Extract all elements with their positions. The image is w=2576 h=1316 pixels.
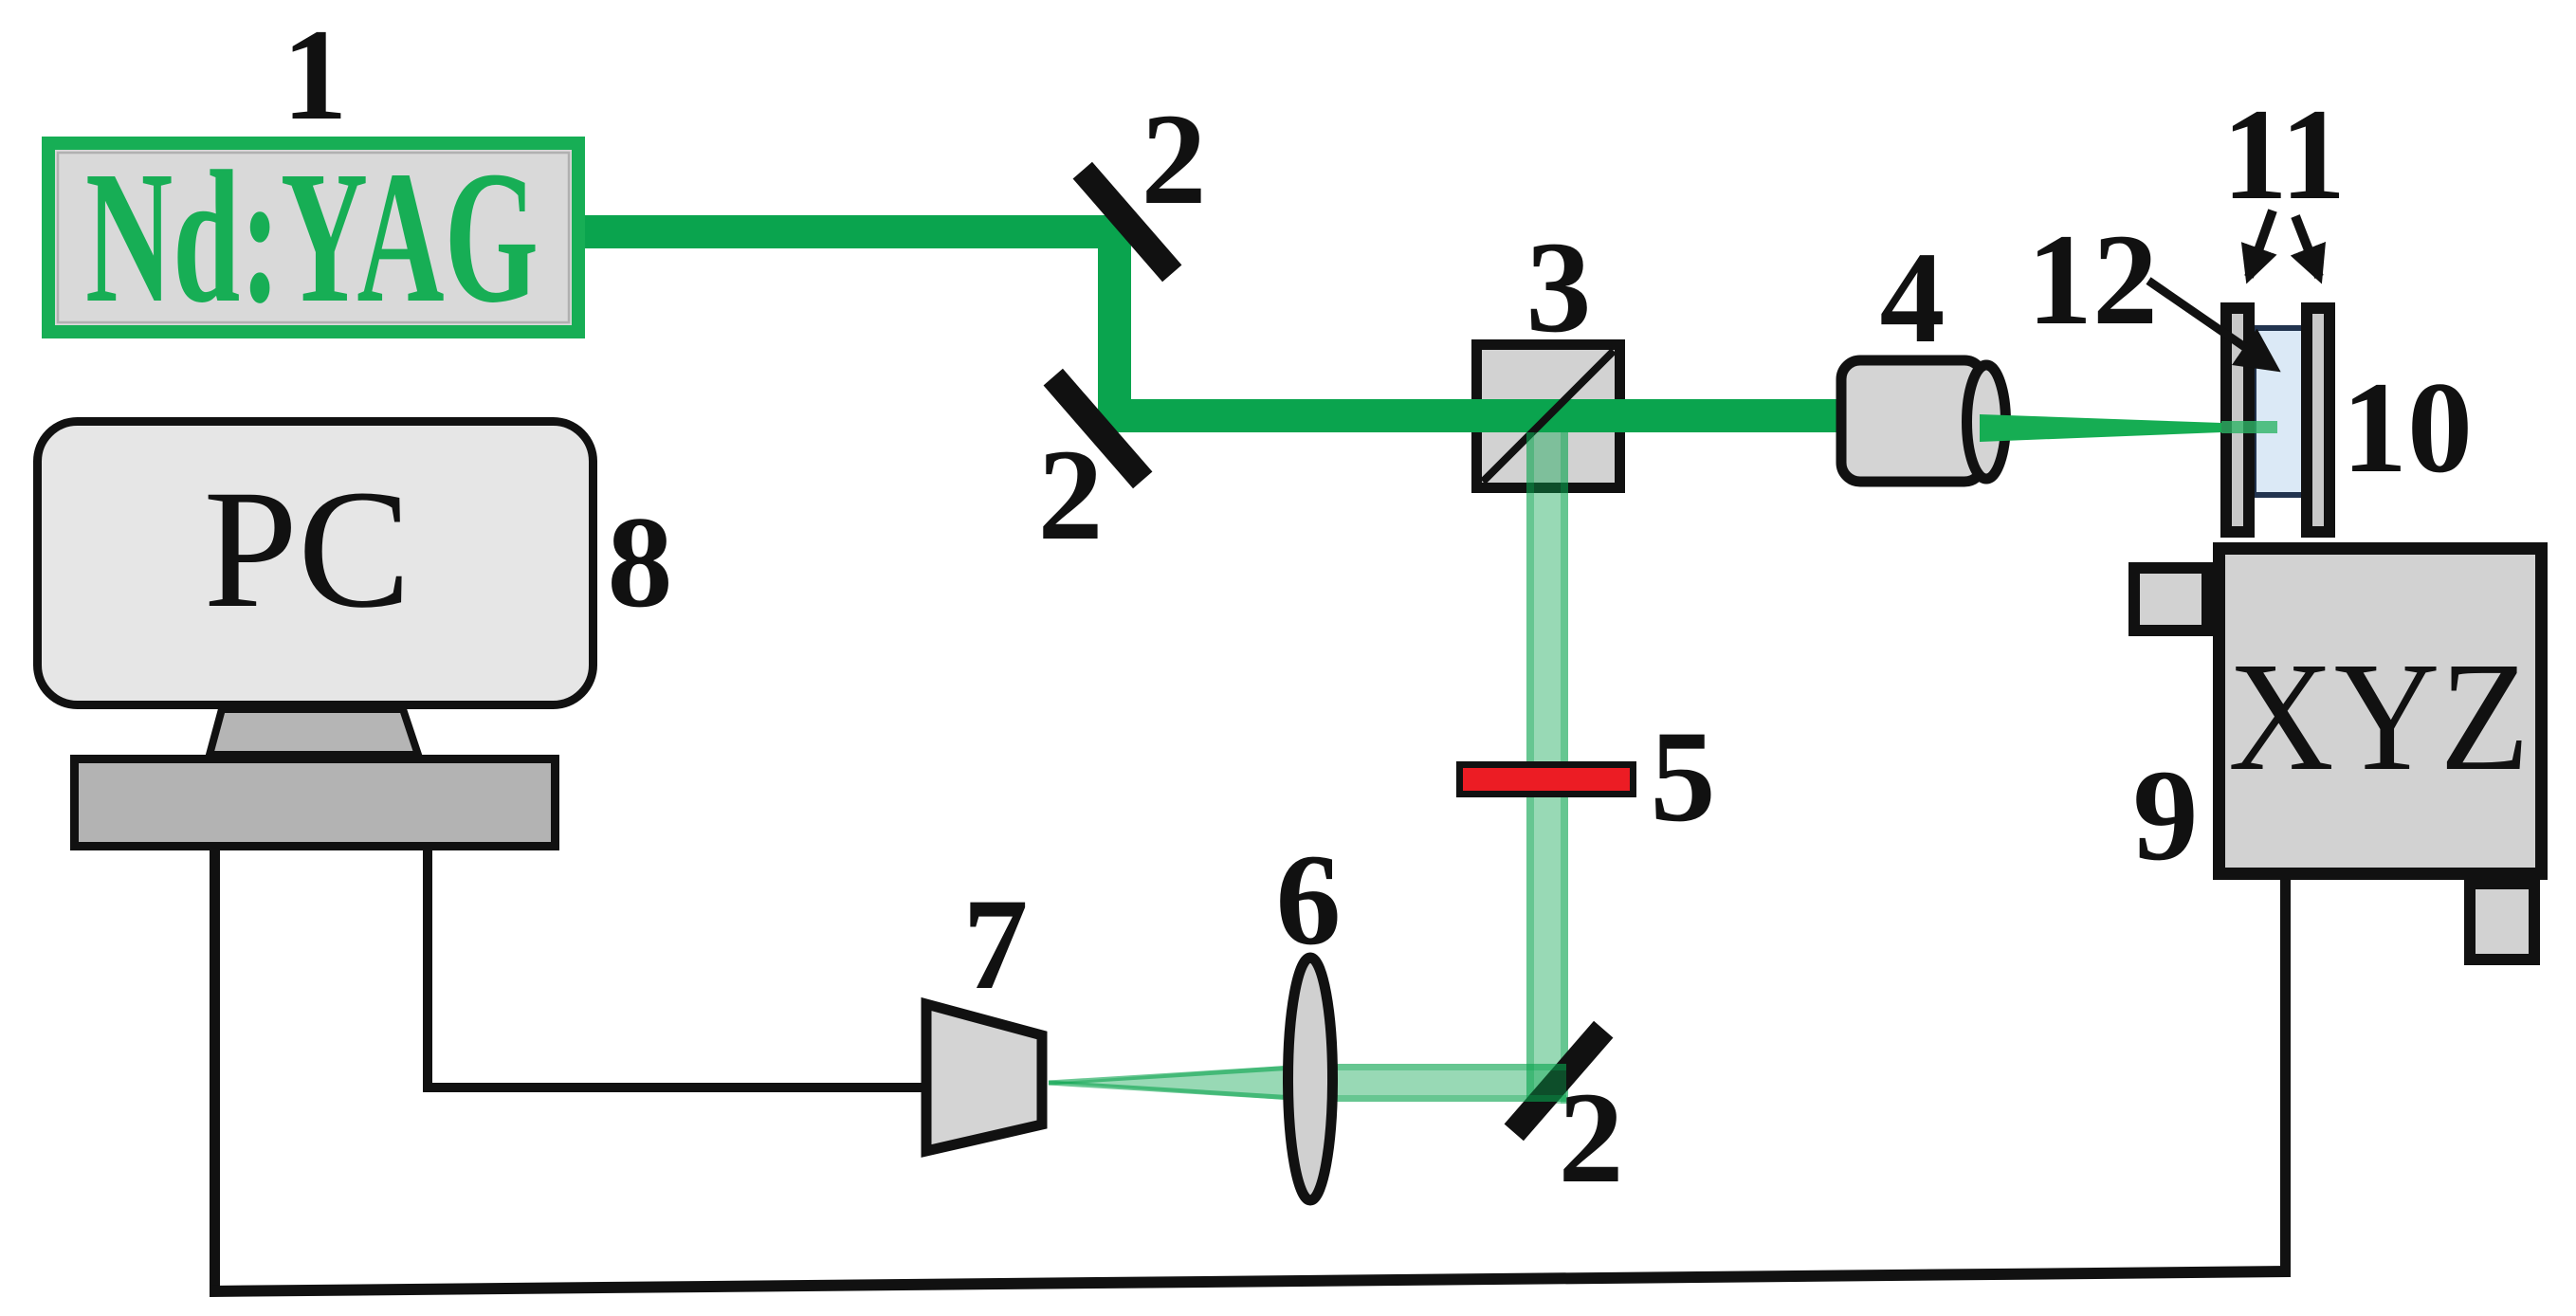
arrow 11 right: [2295, 216, 2319, 277]
svg-text:2: 2: [1559, 1065, 1624, 1210]
arrow 11 left: [2249, 210, 2273, 277]
detector 7 (trapezoid): [926, 1004, 1042, 1151]
wire PC to detector (horizontal): [423, 1083, 925, 1092]
laser box 1 (Nd:YAG): [48, 143, 578, 332]
mirror M3: [1505, 1021, 1614, 1141]
beam: M1 down to M2: [1098, 228, 1131, 431]
glass slide right 11: [2307, 308, 2329, 532]
beam: M2 to lens 4 (over cube borders): [1460, 399, 1982, 432]
beam: laser to mirror M1: [578, 215, 1131, 248]
light beam: lens 6 converging to detector 7: [1049, 1064, 1310, 1102]
svg-text:5: 5: [1651, 704, 1716, 849]
XYZ stage 9: [2220, 549, 2542, 874]
svg-text:Nd:YAG: Nd:YAG: [85, 133, 539, 342]
beam: M2 to lens 4: [1115, 399, 1982, 432]
svg-text:2: 2: [1038, 422, 1104, 567]
focused beam: lens 4 to sample: [1980, 414, 2221, 442]
mirror M2: [1044, 369, 1153, 488]
beam tail inside cuvette: [2221, 421, 2277, 433]
beamsplitter cube 3: [1477, 345, 1620, 488]
lens 4 cylinder body: [1841, 360, 1983, 482]
wire PC-base to bottom (left vertical): [210, 844, 220, 1288]
svg-text:4: 4: [1880, 225, 1946, 370]
monitor stand: [210, 709, 418, 755]
svg-text:XYZ: XYZ: [2228, 630, 2530, 803]
cuvette (blue liquid) 12: [2254, 328, 2304, 495]
light beam: splitter down to mirror M3: [1526, 432, 1568, 1104]
svg-text:12: 12: [2027, 207, 2158, 352]
wire XYZ vertical: [2280, 876, 2291, 1274]
beamsplitter diagonal: [1483, 351, 1614, 482]
monitor base: [75, 759, 556, 847]
svg-text:6: 6: [1276, 827, 1342, 972]
glass slide left 11: [2226, 308, 2249, 532]
svg-text:7: 7: [963, 871, 1029, 1016]
svg-text:9: 9: [2133, 742, 2199, 887]
light beam: M3 to lens 6: [1310, 1064, 1566, 1102]
arrow 12: [2148, 281, 2274, 367]
svg-text:11: 11: [2222, 82, 2346, 227]
wire bottom long horizontal: [210, 1266, 2291, 1297]
lens 6: [1288, 958, 1333, 1200]
PC monitor 8: [38, 422, 594, 705]
XYZ bottom-right knob: [2470, 884, 2534, 960]
XYZ left knob: [2134, 568, 2207, 631]
svg-text:8: 8: [608, 489, 673, 634]
svg-text:2: 2: [1142, 86, 1207, 231]
svg-text:PC: PC: [204, 454, 411, 643]
lens 4 right end cap: [1967, 365, 2006, 479]
svg-text:1: 1: [283, 2, 348, 147]
svg-text:10: 10: [2342, 355, 2473, 500]
svg-text:3: 3: [1526, 214, 1592, 359]
mirror M1: [1073, 162, 1182, 282]
wire PC to detector (vertical): [423, 844, 432, 1090]
red filter 5: [1460, 765, 1634, 795]
